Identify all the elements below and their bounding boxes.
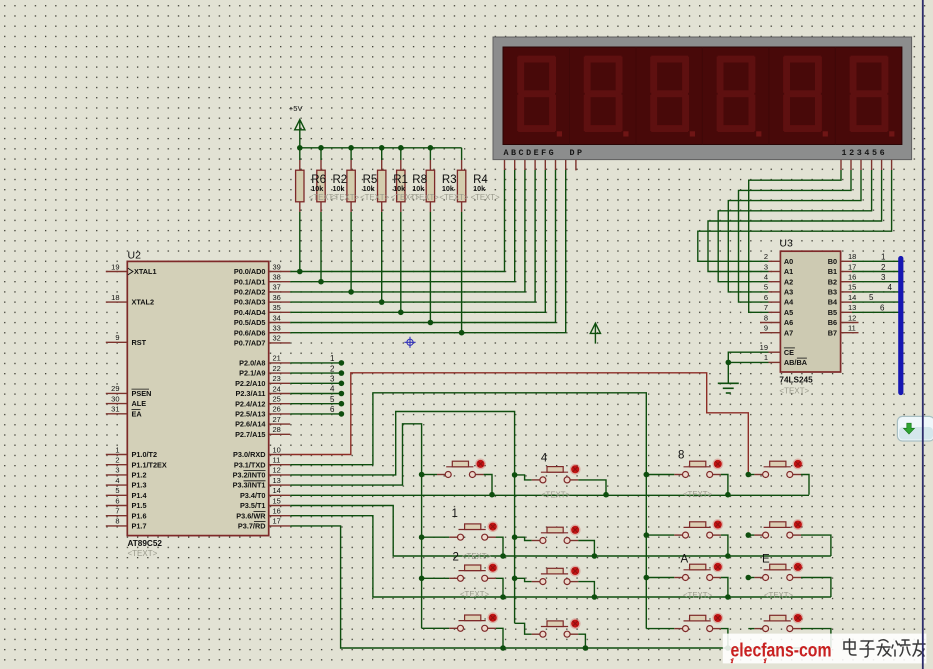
junction rail at R1 [379,145,385,151]
U2 pin 31 EA [106,405,143,419]
svg-text:<TEXT>: <TEXT> [541,491,570,500]
resistor R1 labels 10k [391,174,420,202]
resistor R8 labels 10k [410,174,439,202]
svg-text:B4: B4 [828,298,838,307]
svg-text:A5: A5 [784,308,793,317]
U3 pin 9 A7 [760,324,793,338]
pushbutton row3 col4 [748,562,831,598]
junction resistor R3 bottom on P0.5 [428,320,434,326]
power rail +5V horizontal [300,147,462,149]
svg-text:37: 37 [273,283,281,292]
svg-text:A6: A6 [784,318,793,327]
svg-text:32: 32 [273,334,281,343]
bus net label 3 [881,273,886,282]
keypad TEXT placeholder [460,590,489,599]
svg-text:DP: DP [570,148,585,158]
svg-text:16: 16 [273,507,281,516]
pushbutton row2 col1 [422,521,503,556]
svg-text:123456: 123456 [842,148,888,158]
svg-text:2: 2 [115,456,119,465]
svg-text:6: 6 [115,496,119,505]
svg-text:74LS245: 74LS245 [779,376,813,385]
keypad TEXT placeholder [764,591,793,600]
wire rail to resistor R2 top [320,148,322,170]
svg-text:AT89C52: AT89C52 [128,539,163,548]
svg-text:+5V: +5V [289,104,304,113]
keypad TEXT placeholder [683,490,712,499]
U2 pin 27 P2.6/A14 [235,415,290,429]
U2 pin 17 P3.7/RD [238,517,290,531]
U2 pin 15 P3.5/T1 [240,496,290,510]
svg-text:B0: B0 [828,257,837,266]
wire P0.1 net to display segment B [290,160,515,282]
svg-text:8: 8 [678,450,684,462]
svg-text:10: 10 [273,445,281,454]
svg-text:1: 1 [115,445,119,454]
keypad wire junction [500,594,506,600]
wire display digit 4 to U3 A2 [718,160,871,282]
resistor R2 labels 10k [330,174,359,202]
junction resistor R2 bottom on P0.1 [318,279,324,285]
svg-text:P3.7/RD: P3.7/RD [238,522,266,531]
keypad wire junction [725,553,731,559]
U2 pin 28 P2.7/A15 [235,425,290,439]
svg-text:<TEXT>: <TEXT> [764,591,793,600]
svg-text:23: 23 [273,374,281,383]
wire resistor R5 bottom lead [350,202,352,292]
svg-text:7: 7 [115,507,119,516]
keypad label 1 [452,508,458,520]
U2 pin 8 P1.7 [106,517,147,531]
svg-text:16: 16 [848,273,856,282]
svg-text:A7: A7 [784,328,793,337]
wire P0.0 net to display segment A [290,160,504,272]
keypad TEXT placeholder [541,491,570,500]
pushbutton row4 col1 [422,612,503,648]
svg-text:B5: B5 [828,308,837,317]
U2 pin 37 P0.2/AD2 [234,283,290,297]
svg-text:31: 31 [111,405,119,414]
svg-text:9: 9 [115,333,119,342]
svg-text:U2: U2 [128,250,142,262]
resistor R5 labels 10k [360,174,389,202]
keypad wire junction [512,472,518,478]
svg-text:2: 2 [764,252,768,261]
U3 pin 18 B0 [828,252,901,266]
svg-text:RST: RST [132,338,147,347]
U2 pin 38 P0.1/AD1 [234,273,290,287]
svg-text:<TEXT>: <TEXT> [683,490,712,499]
svg-text:P3.5/T1: P3.5/T1 [240,501,266,510]
svg-text:<TEXT>: <TEXT> [360,193,389,202]
wire resistor R6 bottom lead [299,202,301,272]
wire P0.6 net to display segment G [290,160,566,333]
display pin labels 123456 [842,148,888,158]
pushbutton row1 col3 [646,459,728,495]
resistor R6 body [296,170,304,202]
U2 pin 39 P0.0/AD0 [234,262,290,276]
U2 pin 34 P0.5/AD5 [234,313,290,327]
wire display digit 3 to U3 A3 [728,160,861,292]
svg-text:P2.6/A14: P2.6/A14 [235,420,266,429]
svg-text:1: 1 [764,353,768,362]
svg-text:<TEXT>: <TEXT> [779,387,809,396]
U2 pin 16 P3.6/WR [236,507,290,521]
svg-text:B6: B6 [828,318,837,327]
pushbutton row3 col1 [422,562,503,597]
svg-text:P0.5/AD5: P0.5/AD5 [234,318,266,327]
scroll button with green arrow [897,416,933,441]
svg-text:5: 5 [115,486,119,495]
svg-text:A2: A2 [784,277,793,286]
U3 pin 2 A0 [764,252,793,266]
svg-text:EA: EA [132,409,143,418]
wire P2.3 net 4 [290,385,344,397]
svg-text:4: 4 [115,476,119,485]
svg-text:6: 6 [330,405,335,414]
pushbutton row4 col2 [515,618,586,648]
U2 pin 2 P1.1/T2EX [106,456,167,470]
svg-text:1: 1 [330,354,335,363]
wire P2.1 net 2 [290,364,344,376]
svg-text:10k: 10k [412,184,424,193]
keypad wire junction [644,472,650,478]
wire resistor R8 bottom lead [400,202,402,312]
svg-text:11: 11 [273,456,281,465]
resistor R3 body [426,170,434,202]
junction rail at R3 [428,145,434,151]
U3 pin 15 B3 [828,283,901,297]
buffer U3 74LS245 [779,238,840,396]
svg-text:P2.3/A11: P2.3/A11 [235,389,265,398]
wire P3.7 keypad row 4 [290,526,831,648]
U3 pin 13 B5 [828,303,901,317]
svg-text:<TEXT>: <TEXT> [683,591,712,600]
microcontroller U2 AT89C52 [127,250,268,559]
junction rail at R5 [348,145,354,151]
svg-text:10k: 10k [473,184,485,193]
keypad wire junction [592,594,598,600]
svg-text:<TEXT>: <TEXT> [471,193,500,202]
wire P3.4 keypad row 1 [290,494,809,496]
U3 pin 4 A2 [764,273,793,287]
svg-text:19: 19 [111,262,119,271]
pushbutton row1 col2 [515,464,606,495]
svg-text:30: 30 [111,394,119,403]
U2 pin 29 PSEN [106,384,152,398]
bus net label 6 [880,304,885,313]
svg-text:3: 3 [881,273,886,282]
svg-text:11: 11 [848,324,856,333]
svg-text:P0.4/AD4: P0.4/AD4 [234,308,267,317]
pushbutton row2 col2 [515,525,595,557]
svg-text:P1.5: P1.5 [132,501,147,510]
svg-text:12: 12 [848,313,856,322]
svg-text:A4: A4 [784,298,794,307]
pushbutton row1 col4 [748,459,809,495]
keypad wire junction [512,534,518,540]
U2 pin 18 XTAL2 [106,293,154,307]
svg-text:A3: A3 [784,288,793,297]
U2 pin 26 P2.5/A13 [235,405,290,419]
svg-text:P3.3/INT1: P3.3/INT1 [233,481,266,490]
svg-text:P1.3: P1.3 [132,481,147,490]
svg-text:5: 5 [764,283,768,292]
pushbutton row3 col3 [646,562,728,598]
U2 pin 22 P2.1/A9 [239,364,290,378]
svg-text:P0.6/AD6: P0.6/AD6 [234,328,266,337]
U3 pin 3 A1 [764,262,793,276]
svg-text:<TEXT>: <TEXT> [330,193,359,202]
junction resistor R1 bottom on P0.3 [379,299,385,305]
bus net label 1 [881,253,886,262]
U2 pin 23 P2.2/A10 [235,374,290,388]
keypad wire junction [592,553,598,559]
U2 pin 3 P1.2 [106,466,147,480]
svg-text:27: 27 [273,415,281,424]
keypad label A [681,554,689,566]
svg-text:26: 26 [273,405,281,414]
U2 pin 1 P1.0/T2 [106,445,157,459]
window split line (navy) [922,0,924,669]
svg-text:B3: B3 [828,288,837,297]
svg-text:P3.0/RXD: P3.0/RXD [233,450,265,459]
resistor R3 labels 10k [439,174,468,202]
svg-text:P3.2/INT0: P3.2/INT0 [233,471,266,480]
svg-text:ABCDEFG: ABCDEFG [504,148,557,158]
svg-text:<TEXT>: <TEXT> [439,193,468,202]
svg-text:6: 6 [764,293,768,302]
svg-text:P1.7: P1.7 [132,522,147,531]
U2 pin 9 RST [106,333,147,347]
svg-text:18: 18 [111,293,119,302]
svg-text:P2.0/A8: P2.0/A8 [239,359,265,368]
svg-text:5: 5 [869,293,874,302]
svg-text:A: A [681,554,689,566]
svg-text:XTAL2: XTAL2 [132,298,155,307]
svg-text:A1: A1 [784,267,793,276]
resistor R4 body [457,170,465,202]
svg-text:34: 34 [273,313,281,322]
wire P3.2 to keypad column 2 [290,412,514,624]
wire P3.0 (red) to keypad column 4 [290,373,748,475]
keypad wire junction [725,645,731,651]
wire resistor R2 bottom lead [320,202,322,282]
svg-text:B1: B1 [828,267,837,276]
svg-text:19: 19 [760,343,768,352]
svg-text:PSEN: PSEN [132,389,152,398]
svg-text:15: 15 [848,283,856,292]
svg-text:XTAL1: XTAL1 [134,267,157,276]
svg-text:24: 24 [273,384,281,393]
U2 pin 24 P2.3/A11 [235,384,290,398]
svg-text:<TEXT>: <TEXT> [460,590,489,599]
svg-text:1: 1 [452,508,458,520]
U3 pin 1 AB/BA [764,353,808,367]
resistor R8 body [397,170,405,202]
svg-text:8: 8 [115,517,119,526]
svg-text:22: 22 [273,364,281,373]
wire P3.3 to keypad column 1 [290,424,421,629]
svg-text:28: 28 [273,425,281,434]
wire rail to resistor R5 top [350,148,352,170]
U2 pin 14 P3.4/T0 [240,486,290,500]
U2 pin 11 P3.1/TXD [234,456,290,470]
svg-text:P1.4: P1.4 [132,491,148,500]
svg-text:P0.1/AD1: P0.1/AD1 [234,277,266,286]
svg-text:10k: 10k [393,184,405,193]
U2 pin 35 P0.4/AD4 [234,303,290,317]
U3 pin 12 B6 [828,313,859,327]
wire rail to resistor R1 top [381,148,383,170]
svg-text:<TEXT>: <TEXT> [128,549,158,558]
wire rail to resistor R3 top [429,148,431,170]
U2 pin 4 P1.3 [106,476,147,490]
keypad wire junction [419,472,425,478]
bus net label 5 [869,293,874,302]
svg-text:21: 21 [273,354,281,363]
svg-text:5: 5 [330,395,335,404]
wire resistor R1 bottom lead [381,202,383,302]
svg-text:17: 17 [273,517,281,526]
U2 pin 7 P1.6 [106,507,147,521]
svg-text:P1.6: P1.6 [132,511,147,520]
display pin labels ABCDEFG DP [504,148,585,158]
svg-text:2: 2 [330,364,335,373]
svg-text:P2.5/A13: P2.5/A13 [235,410,265,419]
svg-text:P2.2/A10: P2.2/A10 [235,379,265,388]
keypad wire junction [725,492,731,498]
wire P3.5 keypad row 2 [290,506,831,557]
U3 pin 14 B4 [828,293,901,307]
svg-text:P3.1/TXD: P3.1/TXD [234,460,266,469]
wire P3.1 to keypad column 3 [290,393,646,629]
watermark chinese characters [844,639,925,657]
svg-text:13: 13 [273,476,281,485]
keypad wire junction [500,553,506,559]
svg-text:3: 3 [115,466,119,475]
pushbutton row4 col4 [748,613,831,648]
svg-text:2: 2 [881,263,886,272]
svg-text:4: 4 [888,283,893,292]
resistor R1 body [378,170,386,202]
bus bar (blue) [898,259,903,393]
display DP pin stub [575,160,577,171]
keypad label E [762,554,770,566]
keypad TEXT placeholder [683,591,712,600]
wire P0.5 net to display segment F [290,160,555,323]
keypad label 2 [453,552,459,564]
pushbutton row1 col1 [422,459,492,495]
junction resistor R4 bottom on P0.6 [459,330,465,336]
svg-text:CE: CE [784,348,794,357]
U2 pin 6 P1.5 [106,496,147,510]
svg-text:P3.6/WR: P3.6/WR [236,511,266,520]
svg-text:P0.0/AD0: P0.0/AD0 [234,267,266,276]
wire P2.0 net 1 [290,354,344,366]
wire rail to resistor R6 top [299,148,301,170]
svg-text:U3: U3 [779,238,793,250]
pushbutton row3 col2 [515,566,595,597]
wire P0.4 net to display segment E [290,160,545,312]
svg-text:9: 9 [764,324,768,333]
wire resistor R3 bottom lead [429,202,431,323]
U2 pin 33 P0.6/AD6 [234,324,290,338]
svg-text:29: 29 [111,384,119,393]
junction rail at R2 [318,145,324,151]
keypad wire junction [500,645,506,651]
svg-text:P0.7/AD7: P0.7/AD7 [234,339,266,348]
U2 pin 36 P0.3/AD3 [234,293,290,307]
pushbutton row2 col4 [748,519,831,556]
svg-text:P1.1/T2EX: P1.1/T2EX [132,460,167,469]
wire P3.6 keypad row 3 [290,516,831,597]
svg-text:3: 3 [330,375,335,384]
svg-text:6: 6 [880,304,885,313]
pushbutton row2 col3 [646,519,728,556]
junction rail at R8 [398,145,404,151]
bus net label 4 [888,283,893,292]
svg-text:P0.3/AD3: P0.3/AD3 [234,298,266,307]
svg-text:A0: A0 [784,257,793,266]
svg-text:1: 1 [881,253,886,262]
svg-text:10k: 10k [442,184,454,193]
keypad wire junction [746,575,752,581]
keypad wire junction [644,575,650,581]
power arrow symbol (floating) [590,323,600,343]
svg-text:25: 25 [273,395,281,404]
svg-text:13: 13 [848,303,856,312]
svg-text:17: 17 [848,262,856,271]
keypad wire junction [746,472,752,478]
wire CE and AB/BA to ground [726,352,769,383]
keypad wire junction [419,576,425,582]
wire resistor R4 bottom lead [461,202,463,333]
wire P2.2 net 3 [290,375,344,387]
keypad wire junction [644,532,650,538]
svg-text:15: 15 [273,496,281,505]
svg-text:14: 14 [273,486,281,495]
svg-text:P2.4/A12: P2.4/A12 [235,399,265,408]
svg-text:ALE: ALE [132,399,147,408]
svg-text:4: 4 [764,273,768,282]
junction resistor R5 bottom on P0.2 [348,289,354,295]
wire display digit 6 to U3 A0 [698,160,892,261]
svg-text:10k: 10k [311,184,323,193]
svg-text:B2: B2 [828,277,837,286]
bus net label 2 [881,263,886,272]
wire rail to resistor R8 top [400,148,402,170]
keypad wire junction [603,492,609,498]
U2 pin 30 ALE [106,394,146,408]
keypad wire junction [746,532,752,538]
svg-text:12: 12 [273,466,281,475]
keypad wire junction [512,576,518,582]
U2 pin 10 P3.0/RXD [233,445,290,459]
resistor R2 body [317,170,325,202]
keypad label 8 [678,450,684,462]
svg-text:3: 3 [764,262,768,271]
svg-text:B7: B7 [828,328,837,337]
pushbutton row4 col3 [646,613,728,648]
svg-text:39: 39 [273,262,281,271]
watermark elecfans.com [723,634,927,664]
keypad wire junction [419,534,425,540]
U2 pin 25 P2.4/A12 [235,395,290,409]
U2 pin 13 P3.3/INT1 [233,476,291,490]
svg-text:P1.2: P1.2 [132,471,147,480]
wire display digit 5 to U3 A1 [708,160,882,272]
